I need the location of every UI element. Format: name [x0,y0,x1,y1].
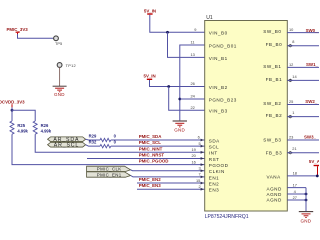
svg-text:1: 1 [292,110,294,115]
wire PGND_B23 stub [180,98,205,100]
resistor R29 value 0 [89,133,117,141]
ground under TP12 [53,86,67,97]
svg-text:PMIC_SDA: PMIC_SDA [139,134,163,139]
svg-text:21: 21 [292,146,296,151]
svg-text:EN2: EN2 [209,181,219,186]
svg-text:LP87524JRNFRQ1: LP87524JRNFRQ1 [205,214,249,220]
svg-text:25: 25 [289,99,293,104]
svg-text:PMIC_CLK: PMIC_CLK [97,167,122,172]
svg-text:SW_B2: SW_B2 [263,101,281,106]
svg-text:17: 17 [293,182,297,187]
svg-text:SW0_: SW0_ [306,28,319,33]
svg-text:AGND: AGND [267,186,282,191]
junction node AGND2 [305,193,308,196]
svg-text:U1: U1 [206,15,213,21]
svg-text:PGND_B23: PGND_B23 [209,97,237,102]
svg-text:PMIC_NINT: PMIC_NINT [139,146,163,151]
svg-text:11: 11 [191,40,195,45]
svg-text:18: 18 [293,170,297,175]
pin arrow CLKIN [201,169,204,172]
wire PGND_B01 to ground rail [180,45,205,120]
flag AR_SDA [48,137,86,143]
svg-text:R29: R29 [89,133,97,138]
svg-text:6: 6 [198,135,200,140]
resistor R26 [33,121,52,134]
svg-text:12: 12 [289,62,293,67]
svg-text:SW1_: SW1_ [306,62,319,67]
wire FB_B0 out [287,45,319,47]
svg-text:5V_IN: 5V_IN [144,74,156,79]
svg-text:4.99k: 4.99k [41,128,52,133]
test point TP5 [54,36,63,46]
svg-text:SW3_: SW3_ [304,134,317,139]
svg-text:7: 7 [199,172,201,177]
net SOCVDD_3V3 power symbol [0,100,25,108]
wire EN3 row [137,188,205,190]
svg-text:VIN_B2: VIN_B2 [209,85,228,90]
svg-text:PMIC_SCL: PMIC_SCL [139,140,162,145]
svg-text:VANA: VANA [267,175,282,180]
wire FB_B3 out [287,152,319,154]
svg-text:PMIC_EN1: PMIC_EN1 [97,172,122,177]
IC U1 body [205,15,288,220]
svg-text:9: 9 [194,27,196,32]
svg-text:SW_B0: SW_B0 [263,29,281,34]
svg-text:5V_IN: 5V_IN [144,8,156,13]
wire TP12 to ground [59,67,61,86]
svg-text:SCL: SCL [209,145,219,150]
svg-text:27: 27 [293,195,297,200]
flag AR_SCL [48,142,86,148]
pin arrow SCL [201,145,204,148]
wire SW_B1 out [287,66,319,68]
svg-text:SW2_: SW2_ [305,99,318,104]
pin arrow PGOOD [201,163,204,166]
svg-text:PGOOD: PGOOD [209,163,229,168]
wire R25 to PGOOD row [12,134,205,164]
svg-text:FB_B2: FB_B2 [266,113,283,118]
svg-text:SDA: SDA [209,138,220,143]
wire NRST row [87,157,205,159]
pin arrow EN3 [201,188,204,191]
svg-text:8: 8 [292,39,294,44]
svg-text:15: 15 [196,178,200,183]
svg-text:GND: GND [174,127,185,132]
flag PMIC_CLK [87,166,131,171]
junction node PGND_B23 [178,98,181,101]
svg-text:19: 19 [192,147,196,152]
wire SW_B0 out [287,32,319,34]
wire AGND3 [287,199,306,201]
wire R32 to pin SCL [111,145,205,147]
svg-text:FB_B3: FB_B3 [266,150,283,155]
svg-text:SW_B3: SW_B3 [263,138,281,143]
svg-text:EN3: EN3 [209,188,219,193]
pin arrow SDA [201,139,204,142]
wire AR_SDA to R29 [86,138,100,141]
net 5V_ANA power symbol [309,159,320,175]
svg-text:PGND_B01: PGND_B01 [209,43,237,48]
net PMIC_3V3 power symbol [7,27,29,34]
pin arrow EN1 [201,176,204,179]
svg-text:13: 13 [191,52,195,57]
wire branch to VIN_B1 [168,32,205,57]
pin arrow INT [201,151,204,154]
svg-text:VIN_B3: VIN_B3 [209,109,228,114]
svg-text:TP5: TP5 [55,41,62,46]
ground middle (PGND) [173,121,187,132]
svg-text:16: 16 [192,159,196,164]
svg-text:5V_A: 5V_A [309,159,319,164]
wire branch to VIN_B3 [169,87,205,111]
svg-text:TP12: TP12 [66,63,76,68]
svg-text:SW_B1: SW_B1 [263,64,281,69]
svg-text:2: 2 [199,184,201,189]
resistor R32 value 0 [89,140,117,148]
svg-text:23: 23 [289,135,293,140]
wire R29 to pin SDA [111,139,205,141]
pin arrow EN2 [201,182,204,185]
svg-text:VIN_B0: VIN_B0 [209,31,228,36]
wire AGND2 [287,193,306,195]
wire CLKIN row [131,169,205,172]
svg-text:3: 3 [199,165,201,170]
svg-text:CLKIN: CLKIN [209,169,225,174]
wire EN1 row [131,176,205,177]
net 5V_IN power symbol (top) [144,8,156,14]
wire 5V_IN to VIN_B2 [150,80,205,87]
svg-text:FB_B1: FB_B1 [266,77,283,82]
wire AGND1 [287,187,306,189]
svg-text:EN1: EN1 [209,175,219,180]
wire PMIC_3V3 to TP5 [18,34,54,38]
svg-text:22: 22 [191,105,195,110]
wire 5V_IN to VIN_B0 [150,15,205,33]
wire FB_B2 out [287,116,319,118]
wire AGND bus to ground [305,188,307,212]
wire VANA out [287,175,317,177]
wire SOCVDD vertical to R25 [11,107,13,121]
svg-text:INT: INT [209,151,218,156]
wire EN2 row [137,182,205,184]
ground right (AGND) [299,212,313,224]
svg-text:5: 5 [199,141,201,146]
svg-text:GND: GND [54,92,65,97]
flag PMIC_EN1 [87,172,131,177]
net 5V_IN power symbol (second) [144,74,156,80]
svg-text:PMIC_3V3: PMIC_3V3 [7,27,29,32]
pin arrow RST [201,157,204,160]
wire R26 to NINT row [35,134,205,152]
junction node VANA [316,175,319,178]
wire AR_SCL to R32 [86,145,100,146]
svg-text:GND: GND [301,219,312,224]
svg-text:AR_SCL: AR_SCL [54,143,79,149]
svg-text:R32: R32 [89,140,97,145]
svg-text:AGND: AGND [267,192,282,197]
wire SW_B2 out [287,104,319,106]
junction node VIN_B0 branch [166,31,169,34]
svg-text:PMIC_EN2: PMIC_EN2 [139,177,162,182]
svg-text:VIN_B1: VIN_B1 [209,56,228,61]
junction dot SOCVDD node [11,109,14,112]
svg-text:PMIC_NRST: PMIC_NRST [139,152,165,157]
svg-text:OCVDD_3V3: OCVDD_3V3 [0,100,25,105]
svg-text:4.99k: 4.99k [17,128,28,133]
svg-text:PMIC_PGOOD: PMIC_PGOOD [139,159,169,164]
wire FB_B1 out [287,79,319,81]
test point TP12 [57,63,76,69]
svg-text:FB_B0: FB_B0 [266,42,283,47]
svg-text:26: 26 [191,81,195,86]
wire SW_B3 out [287,139,319,141]
svg-text:PMIC_EN3: PMIC_EN3 [139,183,162,188]
svg-text:RST: RST [209,157,220,162]
resistor R25 [10,121,29,134]
svg-text:AGND: AGND [267,198,282,203]
wire SOCVDD to R26 [12,110,35,121]
junction node VIN_B2 branch [167,85,170,88]
junction node AGND3 [305,199,308,202]
